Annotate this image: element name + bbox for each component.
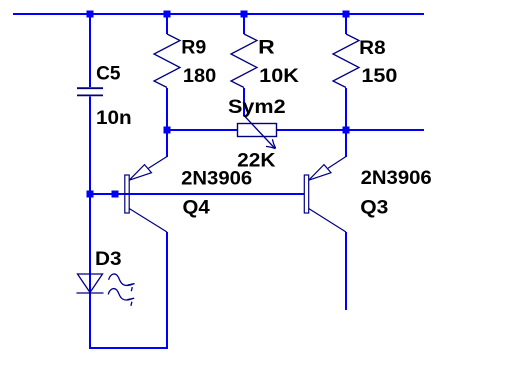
node base wire	[112, 191, 119, 198]
LED light arrow 2	[108, 289, 134, 306]
svg-text:R9: R9	[181, 37, 206, 59]
resistor R9	[154, 34, 180, 88]
node top rail / R	[241, 11, 248, 18]
wire mid left (pot to R9 node)	[167, 129, 237, 131]
wire bottom horizontal	[89, 347, 168, 349]
wire R9 top lead	[166, 15, 168, 34]
wire top rail	[13, 13, 424, 15]
potentiometer Sym2 wiper arrow	[245, 116, 276, 149]
wire Q3 emitter lead	[345, 130, 347, 157]
node top rail / R9	[164, 11, 171, 18]
LED light arrow 1	[109, 274, 135, 291]
transistor Q3 collector	[309, 209, 346, 233]
diode D3 (LED)	[77, 274, 104, 293]
resistor R	[231, 34, 257, 88]
wire R top lead	[243, 15, 245, 34]
transistor Q4 collector	[129, 209, 167, 233]
transistor Q4 emitter arrow	[129, 157, 167, 181]
node R8 / mid wire	[343, 127, 350, 134]
svg-text:Sym2: Sym2	[228, 96, 286, 118]
capacitor C5	[77, 88, 103, 95]
wire R8 top lead	[345, 15, 347, 34]
wire C5 top lead	[89, 15, 91, 87]
svg-text:150: 150	[361, 65, 397, 87]
node top rail / C5	[87, 11, 94, 18]
wire mid right (pot to end)	[277, 129, 424, 131]
svg-text:10K: 10K	[259, 65, 299, 87]
wire C5 bottom to D3	[89, 97, 91, 350]
wire R9 bottom lead	[166, 88, 168, 128]
node R9 / mid wire	[164, 127, 171, 134]
node top rail / R8	[343, 11, 350, 18]
svg-text:2N3906: 2N3906	[181, 167, 252, 189]
svg-text:D3: D3	[95, 248, 122, 270]
potentiometer Sym2 box	[238, 124, 277, 137]
transistor Q3 emitter arrow	[309, 157, 346, 181]
node base rail left	[87, 191, 94, 198]
svg-text:C5: C5	[96, 62, 121, 84]
wire Q3 collector lead	[345, 232, 347, 310]
svg-text:Q4: Q4	[183, 197, 210, 219]
svg-text:R8: R8	[359, 37, 386, 59]
svg-text:Q3: Q3	[360, 196, 388, 218]
transistor Q4 base bar	[125, 175, 129, 213]
wire R bottom lead to pot wiper	[243, 88, 245, 116]
wire Q4 emitter lead	[166, 130, 168, 157]
wire Q4 collector vertical	[166, 232, 168, 349]
wire R8 bottom lead	[345, 88, 347, 128]
svg-text:2N3906: 2N3906	[361, 167, 432, 189]
wire base Q4-Q3	[90, 193, 304, 195]
svg-text:10n: 10n	[96, 107, 132, 129]
svg-text:180: 180	[183, 65, 216, 87]
resistor R8	[333, 34, 359, 88]
svg-text:R: R	[258, 36, 275, 58]
transistor Q3 base bar	[304, 175, 308, 213]
